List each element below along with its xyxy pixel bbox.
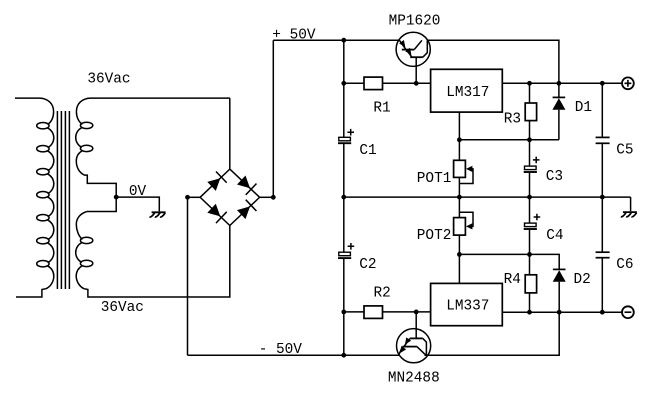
potentiometer POT1 [454,160,466,177]
wire C5 bottom [601,143,603,197]
node mid rail / C5-C6 [600,195,605,200]
transformer T1 secondary lower winding + wire to bridge AC input [76,212,87,240]
svg-text:C3: C3 [546,169,563,185]
capacitor C4 (electrolytic) [525,223,537,227]
wire ADJ2 horizontal [459,254,559,269]
diode bridge D-topleft [207,178,220,191]
diode D2 [558,269,560,271]
wire -50V rail left [188,354,400,356]
node bridge DC- output [185,195,190,200]
wire LM317 OUT [502,82,622,84]
capacitor C1 (electrolytic) [339,137,351,141]
node R2 left junction [341,310,346,315]
node +50V / C1 [341,38,346,43]
wire C2 to R2 node [343,258,345,312]
svg-text:MP1620: MP1620 [389,14,441,30]
wire R3 top [529,83,531,103]
node -50V rail / C2 branch [341,353,346,358]
wire C3 top [529,140,531,166]
svg-text:POT2: POT2 [417,228,452,244]
svg-text:D2: D2 [574,272,591,288]
capacitor C6 [596,251,610,253]
label C2 polarity + [348,243,355,250]
wire C4 top [529,197,531,223]
wire R4 top [529,254,531,274]
svg-text:D1: D1 [575,100,592,116]
node 0V center tap junction [114,195,119,200]
wire mid rail to C2 [343,197,345,252]
node Q1 collector / LM317 IN [414,81,419,86]
resistor R1 [364,77,383,90]
capacitor C5 [596,136,610,138]
transistor Q2 MN2488 darlington symbol [410,337,423,339]
node R1 left junction [341,81,346,86]
svg-text:POT1: POT1 [417,171,452,187]
wire bridge diamond [200,169,260,225]
wire +50V rail left [273,39,399,41]
wire POT2 top [458,197,460,218]
node ADJ1 / R3 / C3 [527,137,532,142]
svg-text:C6: C6 [616,257,633,273]
wire +50V rail right [427,40,559,83]
wire Q1 base to R1/LM317 node [415,57,417,83]
wire R1 left [344,82,364,84]
wire C6 top [601,197,603,252]
wire R4 bottom [529,293,531,312]
wire -50V rail right / Q2 collector [425,312,560,355]
node Q2 base / LM337 IN [414,310,419,315]
wire R2 right [383,311,431,313]
svg-text:R4: R4 [504,272,521,288]
wire mid rail [344,196,631,198]
transformer T1 primary winding [15,98,54,125]
svg-text:36Vac: 36Vac [87,72,130,88]
svg-text:R2: R2 [374,286,391,302]
wire bridge AC top input [229,98,231,169]
wire C5 top [601,83,603,137]
node ADJ2 / R4 / C4 [527,252,532,257]
node ADJ1 / POT1 [457,137,462,142]
resistor R3 [525,103,536,121]
wire R1 right [383,82,431,84]
svg-text:0V: 0V [129,184,147,200]
wire C4 bottom [529,229,531,255]
wire ADJ1 horizontal [459,139,559,141]
label C4 polarity + [534,214,541,221]
resistor R4 [525,275,536,293]
node LM337 OUT / D2 / Q2 collector [557,310,562,315]
label C3 polarity + [533,157,540,164]
resistor R2 [364,306,383,319]
potentiometer POT2 [454,218,466,236]
wire mid rail ground drop [630,197,632,211]
node mid rail / C3-C4 [527,195,532,200]
wire bridge DC+ to +50V rail [272,40,274,197]
svg-text:LM317: LM317 [446,85,489,101]
terminal output positive [622,77,634,89]
diode bridge D-bottomright [237,206,250,219]
wire POT1 bottom [458,177,460,197]
transistor Q1 MP1620 darlington symbol [399,40,406,49]
transistor Q2 MN2488 circle [397,329,431,363]
ground (0V center tap) [150,212,166,217]
diode bridge D-topright [237,176,250,189]
node LM317 OUT / D1 [557,81,562,86]
node ADJ2 / POT2 [457,252,462,257]
wire LM337 OUT [502,311,622,313]
wire LM317 ADJ pin [458,112,460,140]
wire C6 bottom [601,258,603,313]
node LM317 OUT / R3 [527,81,532,86]
wire R3 bottom [529,121,531,140]
node LM337 OUT / C6 [600,310,605,315]
wire C1 to mid rail [343,143,345,197]
transformer T1 core [56,111,58,289]
svg-text:R1: R1 [373,100,390,116]
wire 0V center tap to ground [116,197,159,211]
svg-text:C4: C4 [546,228,563,244]
wire R2 node to -rail [343,312,345,355]
svg-text:LM337: LM337 [446,299,489,315]
POT1 wiper arrow [459,169,473,184]
wire LM337 ADJ pin [458,254,460,283]
label C1 polarity + [347,129,354,136]
ground (output common) [621,212,637,217]
wire R2 left [344,311,364,313]
wire Q2 base from R2 node [415,312,417,339]
wire C1 rail drop [343,40,345,137]
node mid rail / C1-C2 [341,195,346,200]
wire C3 bottom [529,172,531,197]
node mid rail / POT junction [457,195,462,200]
node bridge DC+ output [271,195,276,200]
capacitor C2 (electrolytic) [339,252,351,256]
svg-text:36Vac: 36Vac [101,300,144,316]
svg-text:C2: C2 [359,257,376,273]
node LM317 OUT / C5 [600,81,605,86]
op-amp U2 LM337 box [431,283,503,325]
svg-text:+ 50V: + 50V [272,28,316,44]
svg-text:R3: R3 [504,111,521,127]
transformer T1 secondary upper winding [76,98,230,124]
wire POT2 bottom [458,235,460,254]
wire bridge DC- to -50V rail [187,197,189,355]
diode bridge D-bottomleft [207,204,220,217]
transistor Q1 MP1620 circle [396,32,430,66]
op-amp U1 LM317 box [431,69,503,112]
svg-text:C1: C1 [359,143,376,159]
svg-text:C5: C5 [616,143,633,159]
svg-text:MN2488: MN2488 [388,371,440,387]
terminal output negative [622,306,634,318]
node LM337 OUT / R4 [527,310,532,315]
diode D1 [558,83,560,98]
wire POT1 top [458,140,460,161]
capacitor C3 (electrolytic) [525,166,537,170]
POT2 wiper arrow [459,212,473,226]
